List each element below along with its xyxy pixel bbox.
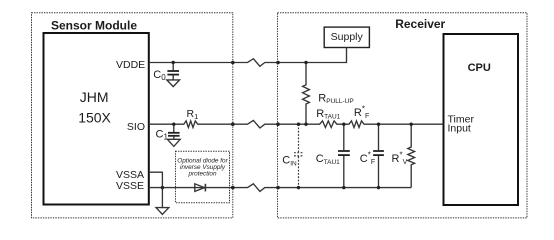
svg-text:VDDE: VDDE	[116, 59, 145, 71]
svg-text:Receiver: Receiver	[395, 17, 445, 31]
svg-text:protection: protection	[187, 171, 217, 178]
svg-text:SIO: SIO	[127, 121, 145, 133]
svg-text:Input: Input	[448, 123, 471, 135]
svg-text:Sensor Module: Sensor Module	[51, 18, 137, 32]
svg-text:Supply: Supply	[331, 31, 364, 43]
svg-text:VSSE: VSSE	[116, 180, 144, 192]
svg-text:150X: 150X	[78, 110, 111, 126]
svg-text:JHM: JHM	[80, 89, 109, 105]
svg-text:CPU: CPU	[468, 62, 491, 74]
svg-text:VSSA: VSSA	[116, 169, 144, 181]
